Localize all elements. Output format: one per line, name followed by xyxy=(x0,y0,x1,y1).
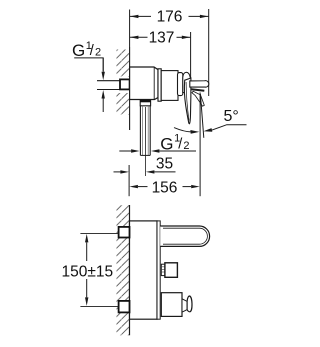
shower holder loop xyxy=(160,226,209,246)
extension line right of 176 xyxy=(208,9,210,96)
G 1/2 outlet dimension arrows xyxy=(119,150,131,152)
grip lower edge accent xyxy=(191,89,204,91)
svg-text:150±15: 150±15 xyxy=(61,263,113,280)
front band xyxy=(157,221,160,319)
cartridge end cap xyxy=(178,73,183,96)
svg-text:2: 2 xyxy=(95,47,101,59)
extension line at wall for 35/156 xyxy=(128,165,130,196)
lever grip (horizontal) xyxy=(190,81,209,88)
dimension 156 xyxy=(129,179,199,196)
5 deg arrow right + leader xyxy=(203,128,212,132)
svg-text:35: 35 xyxy=(156,156,173,173)
diverter knob xyxy=(161,264,165,275)
svg-text:2: 2 xyxy=(183,140,189,152)
outlet pipe xyxy=(139,106,141,156)
dimension 176 xyxy=(130,8,209,25)
lever ghost sliver (tilted position) xyxy=(192,91,204,106)
angle reference vertical line xyxy=(199,93,201,197)
mixer body (side) xyxy=(130,67,158,100)
outlet collar xyxy=(140,100,150,106)
svg-text:176: 176 xyxy=(157,8,183,25)
wall face line lower xyxy=(129,205,131,335)
arrow down to pipe top xyxy=(102,58,104,72)
5 deg arrow left xyxy=(174,128,191,132)
angle tilted line 5deg xyxy=(200,94,203,138)
wall hatching lower xyxy=(117,205,130,335)
lever hub xyxy=(183,72,191,92)
svg-text:5°: 5° xyxy=(224,108,239,125)
wall union nipple (bold) xyxy=(120,79,130,89)
dimension 137 xyxy=(130,30,190,47)
extension line right of 137 xyxy=(190,32,192,79)
arrow up to pipe bottom xyxy=(102,98,104,112)
label G 1/2 (outlet) xyxy=(160,133,189,154)
dimension 150±15 xyxy=(61,234,113,306)
supply pipe in wall xyxy=(97,80,121,82)
svg-text:137: 137 xyxy=(149,30,175,47)
cap band xyxy=(158,69,161,101)
hanging lever blade xyxy=(184,78,191,124)
cartridge cylinder xyxy=(161,71,178,101)
supply centerlines / extension lines xyxy=(80,232,118,234)
lever (end-on) xyxy=(161,293,182,317)
leader line of top G 1/2 xyxy=(74,58,103,71)
union blocks (bold) xyxy=(119,227,130,238)
dimension 35 xyxy=(114,156,176,174)
wall face line upper xyxy=(129,47,131,130)
svg-text:G: G xyxy=(72,41,85,60)
body block xyxy=(130,221,158,319)
wall hatching upper xyxy=(117,50,130,77)
pipe centerline xyxy=(144,107,146,176)
extension line left (wall) for dims 176/137 xyxy=(129,10,131,48)
body ring groove xyxy=(153,67,155,99)
label G 1/2 (supply, top left) xyxy=(72,40,101,60)
svg-text:156: 156 xyxy=(152,179,178,196)
